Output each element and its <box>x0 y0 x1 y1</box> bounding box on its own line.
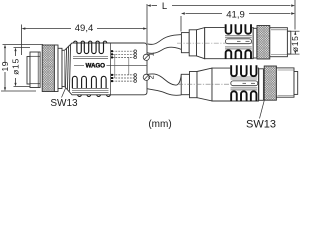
bottom connector front cylinder <box>276 68 294 97</box>
wiring pin circles <box>134 50 137 82</box>
svg-text:(mm): (mm) <box>148 119 171 130</box>
bottom female connector: boot step1 <box>181 68 258 101</box>
svg-text:2: 2 <box>147 75 156 79</box>
port circles with slash <box>143 54 149 80</box>
SW13 leader right <box>260 100 265 119</box>
Y-body top ribs (wavy) <box>74 41 107 54</box>
Y-body bottom edge bumps <box>78 95 111 97</box>
dimension ø15 right <box>288 31 300 54</box>
bottom connector knurled nut <box>264 66 276 100</box>
bottom connector pill <box>231 81 258 86</box>
collar after nut <box>54 45 58 92</box>
dimension ø15 vertical line (left) <box>14 48 36 87</box>
wiring connection squares <box>111 50 113 82</box>
top cable <box>147 35 181 54</box>
cone lines <box>65 48 66 88</box>
internal wiring: dashed lines <box>113 51 134 81</box>
dimension 41,9 <box>181 0 295 32</box>
top connector front rim <box>287 31 290 54</box>
top connector step to nut <box>253 26 291 60</box>
male connector M12 left: front rim <box>27 45 65 92</box>
Y-body top rib valley lines <box>73 57 108 59</box>
svg-text:L: L <box>162 1 167 12</box>
body mid parting line <box>74 65 84 67</box>
bottom connector ribs bottom row <box>231 91 256 101</box>
Y-body bottom ribs (wavy) <box>72 76 106 88</box>
molded Y-body outline <box>65 43 148 95</box>
svg-text:41,9: 41,9 <box>226 10 245 21</box>
svg-text:49,4: 49,4 <box>75 23 94 34</box>
bottom connector centerline <box>178 83 298 85</box>
top connector rib valley lines <box>225 36 252 49</box>
bottom cable <box>147 74 181 95</box>
boot step2 <box>190 72 198 98</box>
coupling nut knurled SW13 <box>42 45 54 92</box>
bottom connector front rim <box>294 72 298 95</box>
Y-body bottom rib valley lines <box>72 88 109 92</box>
bottom connector step to nut <box>259 66 298 100</box>
crossover wiring links <box>114 54 116 78</box>
block separator lines <box>110 43 112 95</box>
cylinder step 2 <box>62 50 65 86</box>
top female connector: boot step1 <box>181 28 253 59</box>
svg-text:ø15: ø15 <box>290 35 300 52</box>
svg-text:WAGO: WAGO <box>86 62 106 69</box>
knurl mid line <box>42 65 54 67</box>
top connector front cylinder <box>270 28 288 57</box>
SW13 leader left <box>62 88 66 97</box>
top connector pill <box>226 39 252 44</box>
top connector ribs bottom row <box>226 50 251 59</box>
bottom connector ribs top row <box>231 65 256 76</box>
top connector ribs top row <box>226 24 251 34</box>
top connector centerline <box>177 42 293 44</box>
dimension 19 vertical line <box>1 45 43 92</box>
bottom connector rib valley lines <box>231 77 258 90</box>
svg-text:19: 19 <box>0 61 10 72</box>
cone to body <box>197 68 212 101</box>
cone to body <box>197 28 205 59</box>
svg-text:ø15: ø15 <box>10 58 20 75</box>
body outline (top edge broken at rib zone) <box>205 28 254 59</box>
male connector thread barrel <box>30 52 40 88</box>
svg-text:SW13: SW13 <box>50 98 78 109</box>
cylinder step 1 <box>58 48 62 88</box>
top connector knurled nut <box>257 26 270 60</box>
dimension 49,4 <box>22 25 148 56</box>
body outline (top edge broken at rib zone) <box>212 68 259 101</box>
dimension L <box>147 4 295 43</box>
svg-text:SW13: SW13 <box>246 119 276 131</box>
boot step2 <box>189 30 196 56</box>
